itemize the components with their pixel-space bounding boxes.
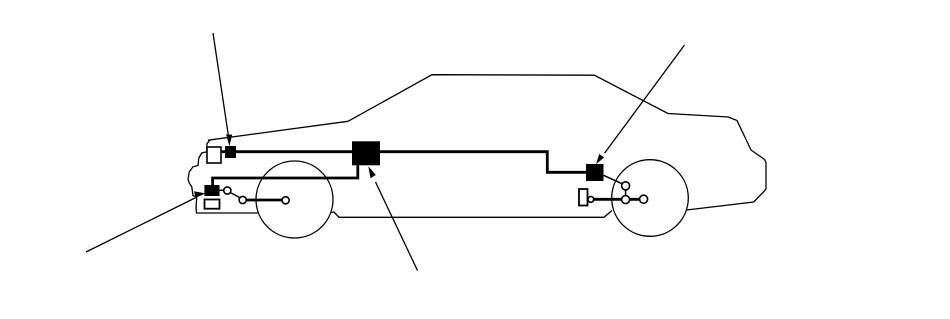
rear wheel xyxy=(612,160,689,237)
car body front bumper outline xyxy=(188,140,259,213)
connector front sensor lead xyxy=(220,189,225,191)
front sensor ring 1 xyxy=(224,187,231,194)
front wheel xyxy=(256,161,333,238)
leader line 3 xyxy=(376,182,418,271)
front sensor ring 3 xyxy=(282,197,289,204)
wire main harness to rear xyxy=(380,152,586,173)
wire front axle link xyxy=(243,199,286,202)
connector front sensor diagonal xyxy=(231,193,240,198)
front lower actuator (black) xyxy=(204,185,219,196)
car body rocker sill line xyxy=(332,211,613,218)
leader line 1 xyxy=(213,33,228,135)
rear control unit (black) xyxy=(586,164,604,181)
front control unit (black) xyxy=(225,146,236,158)
arrowhead 4 xyxy=(596,154,604,164)
front lower bracket (white) xyxy=(205,200,220,209)
leader line 2 xyxy=(86,198,196,253)
connector rear sensor vertical xyxy=(625,190,627,197)
arrowhead 2 xyxy=(194,191,205,198)
wire front harness xyxy=(221,150,352,153)
center ECU module (black) xyxy=(352,141,380,165)
car body windshield roof rear deck outline xyxy=(348,75,766,210)
arrowhead 1 xyxy=(226,134,232,146)
leader line 4 xyxy=(605,45,685,153)
front sensor ring 2 xyxy=(239,196,246,203)
rear bracket ring xyxy=(588,197,594,203)
wire front sensor branch xyxy=(213,165,358,185)
connector rear sensor diagonal xyxy=(604,175,622,183)
rear sensor ring right xyxy=(640,195,648,203)
rear sensor ring top xyxy=(622,182,630,190)
arrowhead 3 xyxy=(368,166,376,178)
rear sensor ring middle xyxy=(622,196,630,204)
car body hood line xyxy=(208,121,348,140)
rear bracket (white) xyxy=(579,189,588,206)
front relay box (white) xyxy=(207,147,221,163)
wire rear axle link xyxy=(592,198,644,201)
